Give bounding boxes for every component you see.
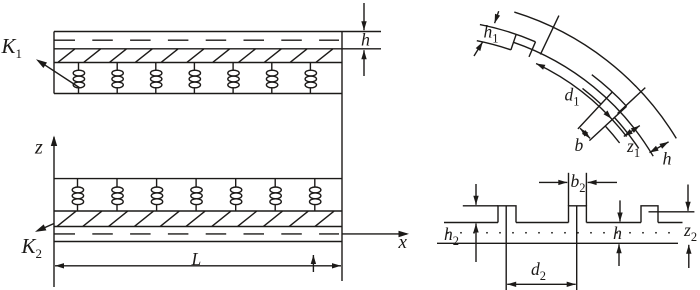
surface 1 surface arc seg 3 <box>614 118 638 149</box>
dimension b arrow <box>580 128 590 138</box>
svg-text:h: h <box>361 30 370 50</box>
plate 1 lower edge (top of hatch, with h extension) <box>54 48 381 50</box>
spring row 1 spring 1 <box>78 63 80 71</box>
dimension L arrow <box>55 265 341 267</box>
K1 leader arrow <box>39 61 81 88</box>
surface 1 surface arc seg 2 <box>583 88 602 104</box>
spring row 1 spring 2 <box>116 63 118 71</box>
plate 1 hatch strip <box>58 49 333 63</box>
b2 extension lines <box>568 173 570 206</box>
d2 extension line left <box>505 207 507 290</box>
surface 1 z mean line arc <box>514 42 654 156</box>
profile 2 valley line seg 4 <box>658 222 683 224</box>
spring row 2 spring 7 <box>314 179 316 188</box>
K2 leader arrow <box>38 224 55 231</box>
position marker arrow on L <box>312 255 314 272</box>
svg-text:x: x <box>398 232 408 253</box>
tooth T1 left side <box>511 34 516 50</box>
right edge / L extension line <box>341 32 343 282</box>
tooth B (b2 tooth) <box>569 206 587 223</box>
dimension d1 arc <box>536 64 627 137</box>
plate 2 bottom edge <box>54 241 342 243</box>
dimension z1 arrow <box>624 126 640 137</box>
dimension h1 lower arrow <box>474 42 483 56</box>
plate 2 hatch strip <box>57 211 334 226</box>
spring row 1 spring 5 <box>232 63 234 71</box>
plate 1 top edge (with h extension) <box>54 31 381 33</box>
plate 2 spring support line <box>54 178 342 180</box>
d1 extension tick 2 <box>618 88 646 114</box>
tooth T1 right side <box>529 42 536 57</box>
profile 2 dotted mid line <box>447 232 670 234</box>
spring row 1 spring 3 <box>155 63 157 71</box>
profile 2 mean height line z <box>649 211 695 213</box>
svg-text:h: h <box>663 149 672 169</box>
dimension b2 left arrow <box>539 181 567 183</box>
spring row 2 spring 6 <box>274 179 276 188</box>
dimension h (surface 1) arrow <box>650 142 669 153</box>
plate 2 centre dashed line <box>55 233 340 235</box>
spring row 1 spring 6 <box>271 63 273 71</box>
surface 1 surface arc seg 1 <box>477 41 511 50</box>
surface 1 tooth top arc with left extension (tooth T2) <box>592 75 627 107</box>
spring row 2 spring 2 <box>116 179 118 188</box>
hatch strip 2 top edge <box>54 210 342 212</box>
dimension h2 upper arrow <box>475 184 477 205</box>
tooth A <box>498 206 516 223</box>
svg-text:L: L <box>191 249 202 269</box>
spring row 2 spring 3 <box>156 179 158 188</box>
profile 2 valley line seg 3 <box>586 222 641 224</box>
svg-text:b: b <box>575 135 584 155</box>
dimension d2 arrow <box>507 283 576 285</box>
d2 extension line right <box>576 207 578 290</box>
spring row 2 spring 4 <box>195 179 197 188</box>
plate 1 left edge <box>53 32 55 94</box>
dimension h (plate 1) upper arrow <box>363 3 365 30</box>
hatch strip 1 bottom edge <box>54 62 342 64</box>
spring row 2 spring 5 <box>235 179 237 188</box>
surface 1 outer (back) arc <box>514 12 676 138</box>
spring row 1 spring 7 <box>309 63 311 71</box>
plate 1 centre dashed line <box>55 39 340 41</box>
profile 2 tooth top extension line <box>463 205 498 207</box>
short reference arc near z1 <box>606 126 620 143</box>
plate 2 upper edge <box>54 226 342 228</box>
spring row 1 spring 4 <box>193 63 195 71</box>
spring row 1 base line <box>54 93 342 95</box>
dimension h (profile 2) upper arrow <box>619 200 621 221</box>
profile 2 valley line seg 2 <box>516 222 569 224</box>
svg-text:h: h <box>613 223 622 243</box>
dimension h (profile 2) lower arrow <box>618 244 620 266</box>
spring row 2 spring 1 <box>77 179 79 188</box>
dimension z2 lower arrow <box>688 245 690 268</box>
d1 extension tick 1 <box>540 16 559 55</box>
x axis <box>342 233 407 235</box>
dimension b2 right arrow <box>588 181 617 183</box>
dimension h1 upper arrow <box>495 11 499 23</box>
profile 2 valley line seg 1 <box>444 222 498 224</box>
profile 2 bottom line <box>437 242 678 244</box>
dimension h2 lower arrow <box>475 224 477 263</box>
tooth T2 right side (b extension) <box>589 106 626 140</box>
tooth T2 left side (b extension) <box>578 92 612 129</box>
z axis <box>53 137 55 287</box>
surface 1 tooth top arc with left extension (tooth T1) <box>480 25 536 42</box>
dimension h (plate 1) lower arrow <box>363 50 365 76</box>
dimension z2 upper arrow <box>687 185 689 211</box>
tooth C <box>641 206 658 223</box>
svg-text:z: z <box>34 137 43 159</box>
